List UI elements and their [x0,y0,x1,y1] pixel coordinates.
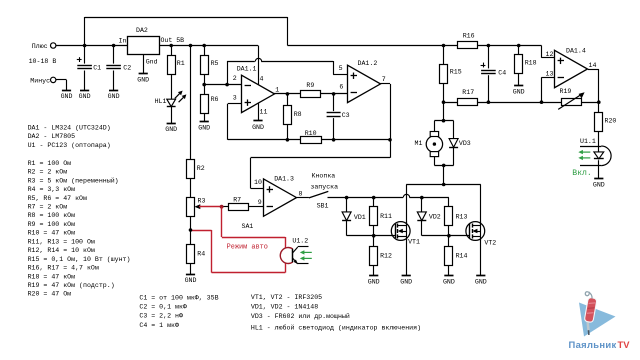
resistor R15 [440,65,462,84]
wire C3 branch [333,94,335,140]
node motor top [442,119,446,123]
wire VD3 branch [453,121,455,166]
svg-text:SB1: SB1 [317,202,329,209]
wire VT1 drain-source [406,185,408,276]
svg-text:GND: GND [400,279,412,286]
resistor R5 [201,56,219,75]
node pin13 junction [540,100,544,104]
wire red U1.2 collector stub [285,237,287,248]
ground DA1.1 pin11 [252,121,264,132]
svg-text:R11, R13 = 100 Ом: R11, R13 = 100 Ом [28,238,95,245]
wire red return riser [211,230,213,273]
svg-text:R3: R3 [198,198,206,205]
resistor R8 [284,106,302,125]
svg-text:SA1: SA1 [242,223,254,230]
wire bottom sense rail [444,102,599,104]
wire DA1.1 pin2 [204,84,241,86]
svg-text:8: 8 [299,191,303,198]
wire R13 branch [448,198,450,236]
svg-text:4: 4 [260,76,264,83]
svg-text:HL1 - любой светодиод (индикат: HL1 - любой светодиод (индикатор включен… [251,324,421,332]
op-amp DA1.2 [339,60,386,103]
wire to DA1.2 pin5 [333,61,347,75]
svg-text:Режим авто: Режим авто [227,243,268,251]
wire C4 branch [488,46,490,103]
svg-text:R15 = 0,1 Ом, 10 Вт (шунт): R15 = 0,1 Ом, 10 Вт (шунт) [28,256,131,263]
svg-text:Кнопка: Кнопка [312,173,336,180]
wire VD1 branch [346,198,348,236]
wire motor left branch [434,121,436,166]
wire DA1.3 output [297,197,309,199]
node R8 bottom [286,138,290,142]
wire U1.1 to GND [598,160,600,178]
node C4 top [487,44,491,48]
label component list left [28,124,131,297]
svg-text:VD1: VD1 [354,214,366,221]
svg-text:3: 3 [233,94,237,101]
wire R1 branch [171,46,173,124]
op-amp DA1.1 [233,65,279,115]
wire R2 column [190,46,192,275]
diode VD1 [342,212,366,221]
wire DA1.4 output [588,69,599,112]
label SA1 [242,223,254,230]
svg-text:GND: GND [368,279,380,286]
svg-text:M1: M1 [415,140,423,147]
wire R7 to DA1.3 pin9 [223,206,264,208]
svg-text:VD3: VD3 [459,140,471,147]
resistor R12 [370,247,393,266]
wire plus input rail [56,45,128,47]
node motor bottom [442,164,446,168]
node DA1.1 out R8 [286,92,290,96]
svg-text:R7: R7 [233,196,241,203]
wire VT2 gate node [422,235,470,237]
wire R20 to U1.1 [598,131,600,152]
terminal Плюс [32,43,56,50]
svg-text:R5: R5 [211,60,219,67]
node VD2 top [420,196,424,200]
wire motor feed [443,102,445,121]
svg-text:GND: GND [513,89,525,96]
svg-text:R12: R12 [380,253,392,260]
resistor R1 [168,56,185,75]
resistor R20 [595,113,617,132]
svg-text:VT1, VT2 - IRF3205: VT1, VT2 - IRF3205 [251,294,322,301]
svg-text:Плюс: Плюс [32,43,48,50]
svg-text:R11: R11 [380,213,392,220]
node feedback tap [225,83,229,87]
svg-text:DA2: DA2 [136,27,148,34]
svg-text:R15: R15 [450,68,462,75]
svg-text:R1 = 100 Ом: R1 = 100 Ом [28,160,72,167]
node R19 output [597,100,601,104]
transistor VT1 [391,222,420,246]
svg-text:U1.1: U1.1 [580,138,596,145]
node DA1.2 out rail [388,138,392,142]
wire red U1.2 emitter stub [285,263,287,273]
op-amp DA1.4 [546,47,597,87]
svg-text:DA1 - LM324 (UTC324D): DA1 - LM324 (UTC324D) [28,124,111,131]
resistor R19 trimmer [558,88,584,109]
node R5 top [202,44,206,48]
wire top power rail [85,17,288,19]
node R13 bottom [447,234,451,238]
svg-text:GND: GND [137,77,149,84]
node drain rail [442,183,446,187]
wire R11 branch [373,198,375,236]
node C2 top [112,44,116,48]
wire DA1.4 pin 13 [542,77,555,102]
node R1 top [169,44,173,48]
ground R12 [368,276,380,286]
optocoupler U1.1 LED [578,138,611,166]
op-amp DA1.3 [254,175,303,216]
svg-text:6: 6 [339,84,343,91]
resistor R6 [201,95,219,114]
svg-text:1: 1 [275,86,279,93]
wire right power rail [288,45,542,47]
svg-text:R19 = 47 кОм (подстр.): R19 = 47 кОм (подстр.) [28,282,115,289]
svg-text:2: 2 [233,75,237,82]
node R9-C3-pin6 [332,92,336,96]
node red junction R7 [220,205,224,209]
svg-text:R10: R10 [305,130,317,137]
node VD1 top [345,196,349,200]
node R11 top [372,196,376,200]
wire DA2 gnd pin [143,55,145,74]
svg-text:TV: TV [618,339,631,350]
node C1 top [83,44,87,48]
resistor R10 [301,130,322,143]
svg-text:10-18 В: 10-18 В [29,58,57,65]
label semiconductor list [251,294,421,332]
ground DA2 [137,74,149,84]
wire SB1 to gates [328,197,449,199]
transistor VT2 [466,222,496,247]
resistor R14 [445,247,468,266]
resistor R9 [301,82,321,98]
svg-text:11: 11 [260,108,268,115]
svg-text:VT1: VT1 [408,239,420,246]
label Вкл [572,169,592,178]
wire feedback riser [227,61,229,85]
svg-text:U1.2: U1.2 [292,238,308,245]
svg-text:Gnd: Gnd [146,59,158,66]
label capacitor list [139,294,218,328]
ground VT1 [400,276,412,286]
svg-text:U1 - PC123 (оптопара): U1 - PC123 (оптопара) [28,142,111,149]
svg-text:9: 9 [258,199,262,206]
wire red down from wiper [221,207,223,237]
resistor R7 [229,196,249,210]
svg-text:DA2 - LM7805: DA2 - LM7805 [28,133,76,140]
ground R18 [513,86,525,96]
svg-text:R20: R20 [605,118,617,125]
svg-text:VD2: VD2 [429,214,441,221]
svg-text:DA1.1: DA1.1 [237,65,257,72]
wire red return bottom [212,272,286,274]
wire crossing hop feedback over pin4 [255,58,261,61]
svg-text:VD3 - FR602 или др.мощный: VD3 - FR602 или др.мощный [251,312,350,320]
capacitor C2 [106,64,131,71]
svg-text:C1: C1 [93,64,101,71]
ground R6 [198,122,210,132]
svg-text:GND: GND [475,279,487,286]
svg-text:R7 = 2 кОм: R7 = 2 кОм [28,204,68,211]
svg-text:GND: GND [593,182,605,189]
wire red to U1.2 collector [222,237,285,239]
svg-text:Вкл.: Вкл. [572,169,592,178]
capacitor C3 [327,112,350,119]
terminal Минус [30,77,56,84]
resistor R2 [187,160,205,179]
wire DA1.1 pin3 [228,104,242,140]
ground C1 [79,91,91,101]
svg-text:5: 5 [339,65,343,72]
svg-text:14: 14 [589,62,597,69]
svg-text:C4: C4 [498,70,506,77]
svg-text:R14: R14 [456,253,468,260]
node R11 bottom [372,234,376,238]
svg-text:VD1, VD2 - 1N4148: VD1, VD2 - 1N4148 [251,304,318,311]
wire motor bottom join [434,165,453,184]
wire to DA1.3 pin10 [251,158,391,189]
node C3 bottom [332,138,336,142]
wire step down at x287 [287,17,289,46]
svg-text:R2: R2 [197,165,205,172]
resistor R3 potentiometer [187,198,206,217]
node R3-R4 junction [189,228,193,232]
ground VT2 [475,276,487,286]
wire R5 branch [204,46,206,85]
ground U1.1 [593,179,605,189]
svg-text:R16, R17 = 4,7 кОм: R16, R17 = 4,7 кОм [28,265,99,272]
wire C2 branch [113,46,115,91]
label 10-18 В [29,58,57,65]
svg-text:Out: Out [161,37,173,44]
resistor R4 [187,245,206,264]
wire feedback horizontal [227,61,333,63]
svg-text:HL1: HL1 [155,98,167,105]
wire motor top split [434,120,453,122]
wire red R3 wiper [199,206,222,208]
wire R14 branch [448,236,450,276]
svg-text:R16: R16 [463,32,475,39]
svg-text:запуска: запуска [310,183,338,190]
wire DA1.1 pin4 riser [258,46,260,86]
svg-text:DA1.3: DA1.3 [274,175,294,182]
ground minus [61,91,73,101]
wire red to R3/R4 junction [191,230,212,232]
svg-text:R5, R6 = 47 кОм: R5, R6 = 47 кОм [28,195,87,202]
svg-text:12: 12 [546,51,554,58]
node R2 top [189,44,193,48]
svg-text:R9 = 100 кОм: R9 = 100 кОм [28,221,76,228]
switch SB1 arm [309,191,328,198]
optocoupler U1.2 phototransistor [280,238,312,265]
svg-text:GND: GND [443,279,455,286]
wire DA1.2 output down [380,84,390,158]
svg-text:GND: GND [108,93,120,100]
wire drain rail [406,184,481,186]
svg-text:R2 = 2 кОм: R2 = 2 кОм [28,169,68,176]
svg-text:VT2: VT2 [484,239,496,246]
node C4 bottom [487,100,491,104]
svg-text:R17: R17 [462,89,474,96]
wire VT1 gate node [347,235,396,237]
svg-text:C2 = 0,1 мкФ: C2 = 0,1 мкФ [139,303,187,310]
wire DA1.1 pin11 [258,103,260,121]
resistor R11 [370,207,393,226]
diode VD2 [417,212,441,221]
svg-text:C3: C3 [342,112,350,119]
wire VD2 branch [421,198,423,236]
ground R14 [443,276,455,286]
svg-text:GND: GND [79,93,91,100]
wire 5V rail DA2 out to DA1.1 pin4 [159,45,258,47]
resistor R17 [458,89,478,105]
svg-text:7: 7 [382,76,386,83]
resistor R18 [515,55,537,74]
node R5-R6 pin2 [202,83,206,87]
svg-text:C4 = 1 мкФ: C4 = 1 мкФ [139,322,179,329]
label Кнопка запуска [310,173,338,191]
svg-text:R12, R14 = 10 кОм: R12, R14 = 10 кОм [28,247,95,254]
wire DA1.1 output [274,93,301,95]
capacitor C1 [77,57,101,71]
resistor R16 [458,32,478,48]
wire crossing hop over VT1 drain [403,194,409,197]
svg-text:R4 = 3,3 кОм: R4 = 3,3 кОм [28,186,76,193]
wire R8 branch [287,94,289,140]
svg-text:GND: GND [61,93,73,100]
svg-text:R8: R8 [294,111,302,118]
svg-text:C3 = 2,2 нФ: C3 = 2,2 нФ [139,313,183,320]
wire VT2 drain-source [480,185,482,276]
svg-text:R20 = 47 Ом: R20 = 47 Ом [28,291,72,298]
svg-text:R6: R6 [211,96,219,103]
svg-text:DA1.2: DA1.2 [358,60,378,67]
wire R18 branch [518,46,520,86]
svg-text:R10 = 47 кОм: R10 = 47 кОм [28,230,76,237]
wire R9 to DA1.2 pin6 [321,93,348,95]
wire R10 rail [228,139,390,141]
svg-text:C2: C2 [123,64,131,71]
regulator DA2 [119,27,185,66]
label SB1 [317,202,329,209]
wire R12 branch [373,236,375,276]
node R18 top [517,44,521,48]
logo Паяльник TV [569,292,631,350]
svg-text:GND: GND [252,124,264,131]
wire R6 branch [204,85,206,122]
resistor R13 [445,207,468,226]
svg-text:R1: R1 [177,60,185,67]
svg-text:R19: R19 [560,88,572,95]
wire to DA1.4 pin 12 [542,46,555,58]
svg-text:13: 13 [546,70,554,77]
wire C1 branch [84,46,86,91]
wire minus to gnd [56,80,67,91]
diode VD3 [449,139,471,148]
svg-text:C1 = от 100 мкФ, 35В: C1 = от 100 мкФ, 35В [139,294,218,301]
svg-text:R3 = 5 кОм (переменный): R3 = 5 кОм (переменный) [28,176,119,184]
LED HL1 [155,91,187,107]
svg-text:5В: 5В [176,37,184,44]
svg-text:R8 = 100 кОм: R8 = 100 кОм [28,212,76,219]
svg-text:Минус: Минус [30,78,50,85]
svg-text:DA1.4: DA1.4 [566,47,586,54]
ground C2 [108,91,120,101]
wire R15 branch [443,46,445,103]
node R15 top [442,44,446,48]
node R15 bottom [442,100,446,104]
label Режим авто [227,243,268,251]
svg-text:GND: GND [198,125,210,132]
ground R4 [185,275,197,285]
svg-text:R13: R13 [456,214,468,221]
svg-text:GND: GND [165,126,177,133]
svg-text:Паяльник: Паяльник [569,339,617,350]
ground HL1 [165,124,177,134]
capacitor C4 [481,63,507,77]
svg-text:R18 = 47 кОм: R18 = 47 кОм [28,273,76,280]
svg-text:R4: R4 [197,251,205,258]
svg-text:R9: R9 [306,82,314,89]
wire riser above C1 [84,17,86,46]
motor M1 [415,132,443,157]
svg-text:R18: R18 [525,59,537,66]
svg-text:10: 10 [254,179,262,186]
svg-text:In: In [119,37,127,44]
svg-text:GND: GND [185,277,197,284]
